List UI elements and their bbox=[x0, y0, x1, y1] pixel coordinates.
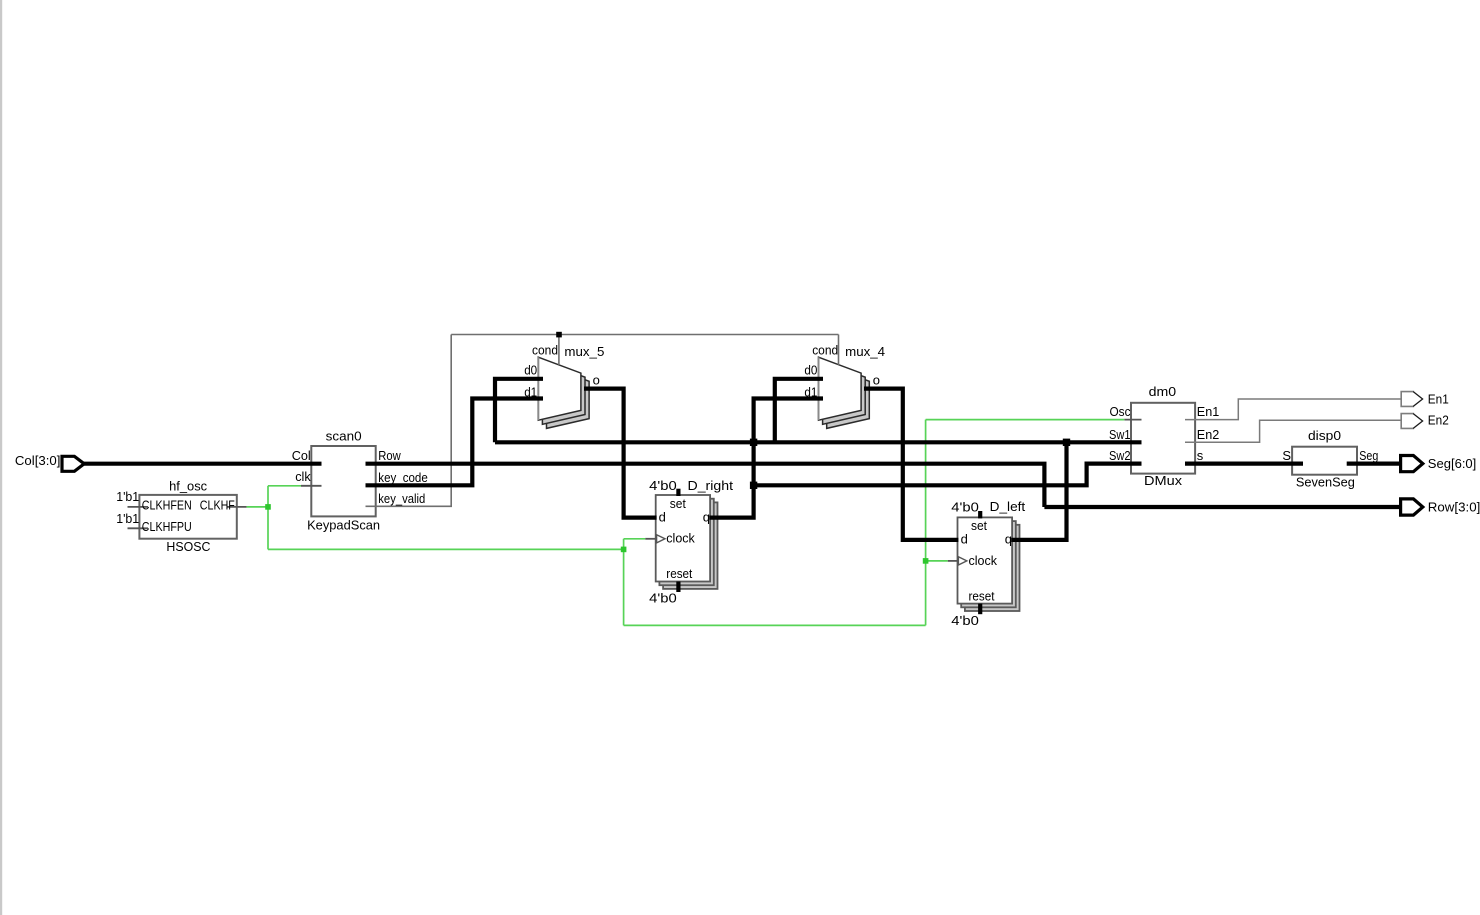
svg-text:DMux: DMux bbox=[1144, 473, 1183, 488]
wire mux_4.d0 riser bbox=[775, 379, 823, 443]
svg-text:d1: d1 bbox=[524, 385, 537, 400]
junction D_right.q riser / branch to Sw2 bbox=[750, 482, 757, 489]
wire clock net (green): to D_left.clock bbox=[926, 560, 948, 562]
input port Col[3:0] bbox=[62, 456, 84, 471]
output port Row[3:0] bbox=[1401, 499, 1423, 515]
wire key_valid net: top horizontal run to mux conds bbox=[451, 334, 838, 336]
clock input triangle D_left bbox=[958, 557, 966, 565]
wire clock net (green): top run to dm0.Osc bbox=[926, 419, 1125, 421]
clock input triangle D_right bbox=[657, 535, 665, 543]
wire D_left.q out and riser to bus y442 bbox=[1011, 442, 1066, 540]
wire clock net (green): tall riser up to dm0 row bbox=[925, 420, 927, 626]
svg-text:reset: reset bbox=[969, 588, 995, 603]
svg-text:s: s bbox=[1197, 448, 1204, 463]
wire D_right.q branch right to dm0.Sw2 bbox=[754, 464, 1142, 486]
output port En2 bbox=[1401, 414, 1422, 429]
svg-text:d0: d0 bbox=[524, 362, 537, 377]
wire Row bus: bottom run to port Row[3:0] bbox=[1044, 505, 1401, 509]
svg-text:Seg[6:0]: Seg[6:0] bbox=[1428, 456, 1477, 471]
junction on cond net at mux_5 bbox=[556, 332, 562, 338]
pin stub D_left.clock bbox=[948, 560, 959, 562]
pin stub dm0.Osc bbox=[1124, 419, 1141, 421]
wire D_right.q feedback: down-leg to mux_5.d0 bbox=[495, 379, 543, 443]
wire D_left reset stub (4'b0) bbox=[978, 604, 982, 615]
svg-text:d: d bbox=[659, 509, 666, 524]
wire dm0.s to disp0.S bbox=[1185, 462, 1303, 466]
svg-text:HSOSC: HSOSC bbox=[166, 539, 210, 554]
svg-text:set: set bbox=[670, 496, 686, 511]
svg-text:En2: En2 bbox=[1428, 413, 1449, 428]
svg-text:dm0: dm0 bbox=[1149, 384, 1177, 399]
wire Row bus: scan0.Row long run right bbox=[366, 464, 1045, 507]
output port En1 bbox=[1401, 392, 1422, 407]
junction clock net at D_right (green) bbox=[621, 547, 627, 553]
svg-text:scan0: scan0 bbox=[326, 428, 362, 443]
wire bus run y442: mux_5.d0 corner to dm0.Sw1 bbox=[495, 440, 1142, 444]
svg-text:cond: cond bbox=[812, 343, 838, 358]
block dm0 (DMux) bbox=[1131, 403, 1195, 474]
svg-text:En1: En1 bbox=[1428, 391, 1449, 406]
svg-text:En1: En1 bbox=[1197, 404, 1220, 419]
svg-text:d: d bbox=[961, 532, 968, 547]
svg-text:D_right: D_right bbox=[688, 478, 734, 493]
svg-text:En2: En2 bbox=[1197, 427, 1220, 442]
junction bus y442 / D_left.q riser bbox=[1063, 439, 1070, 446]
svg-text:S: S bbox=[1282, 448, 1291, 463]
svg-text:q: q bbox=[1005, 532, 1012, 547]
svg-text:key_code: key_code bbox=[378, 470, 428, 485]
wire cond stub of mux_4 bbox=[838, 335, 840, 365]
wire En1 net: dm0.En1 to port En1 bbox=[1185, 399, 1401, 420]
mux mux_5 (4-bit mux stack) bbox=[538, 357, 589, 428]
pin stub hf_osc.CLKHFEN with 1'b1 bbox=[128, 506, 149, 508]
svg-text:CLKHFEN: CLKHFEN bbox=[142, 497, 192, 512]
wire D_right reset stub (4'b0) bbox=[676, 582, 680, 593]
wire key_code bus: scan0.key_code up to mux_5.d1 bbox=[366, 399, 544, 486]
wire clock net (green): riser at D_right bbox=[623, 539, 625, 626]
svg-text:o: o bbox=[593, 372, 600, 387]
wire Col bus: port to scan0.Col bbox=[83, 462, 322, 466]
svg-text:q: q bbox=[703, 509, 710, 524]
svg-text:CLKHFPU: CLKHFPU bbox=[142, 519, 192, 534]
svg-text:reset: reset bbox=[666, 566, 692, 581]
svg-text:Row[3:0]: Row[3:0] bbox=[1428, 499, 1480, 514]
svg-text:D_left: D_left bbox=[990, 499, 1026, 514]
svg-text:Osc: Osc bbox=[1110, 404, 1131, 419]
svg-text:Sw1: Sw1 bbox=[1109, 427, 1131, 442]
svg-text:Col[3:0]: Col[3:0] bbox=[15, 453, 61, 468]
block scan0 (KeypadScan) bbox=[311, 446, 375, 516]
svg-text:o: o bbox=[873, 372, 880, 387]
pin stub D_right.clock bbox=[645, 538, 656, 540]
block hf_osc (HSOSC) bbox=[139, 495, 236, 539]
svg-text:clock: clock bbox=[969, 553, 998, 568]
wire clock net (green): to scan0.clk bbox=[268, 485, 301, 487]
svg-text:Row: Row bbox=[378, 448, 401, 463]
wire clock net (green): lower run toward D_left bbox=[624, 624, 926, 626]
wire En2 net: dm0.En2 to port En2 bbox=[1185, 420, 1401, 442]
output port Seg[6:0] bbox=[1401, 456, 1423, 472]
junction clock net at hf_osc (green) bbox=[265, 504, 271, 510]
junction clock net at D_left (green) bbox=[923, 558, 929, 564]
svg-text:4'b0: 4'b0 bbox=[649, 478, 677, 493]
svg-text:cond: cond bbox=[532, 343, 558, 358]
left window edge bbox=[0, 0, 2, 915]
svg-text:1'b1: 1'b1 bbox=[116, 489, 139, 504]
register D_left (4-bit DFF stack) bbox=[958, 517, 1020, 611]
svg-text:set: set bbox=[971, 518, 987, 533]
svg-text:KeypadScan: KeypadScan bbox=[307, 518, 380, 533]
svg-text:clock: clock bbox=[666, 531, 695, 546]
pin stub hf_osc.CLKHF output bbox=[227, 506, 247, 508]
register D_right (4-bit DFF stack) bbox=[656, 495, 718, 589]
wire disp0.Seg to port Seg[6:0] bbox=[1347, 462, 1402, 466]
svg-text:mux_5: mux_5 bbox=[564, 344, 604, 359]
wire key_valid net: scan0.key_valid right then up bbox=[366, 335, 452, 507]
svg-text:SevenSeg: SevenSeg bbox=[1296, 475, 1355, 490]
wire D_right set stub (4'b0) bbox=[676, 489, 680, 496]
block disp0 (SevenSeg) bbox=[1292, 447, 1357, 475]
junction bus y442 / D_right.q riser bbox=[750, 439, 757, 446]
svg-text:mux_4: mux_4 bbox=[845, 344, 885, 359]
svg-text:Sw2: Sw2 bbox=[1109, 448, 1131, 463]
wire clock net (green): riser at hf_osc junction bbox=[267, 486, 269, 550]
wire clock net (green): long bottom run to D_right bbox=[268, 548, 624, 550]
pin stub hf_osc.CLKHFPU with 1'b1 bbox=[128, 527, 149, 529]
svg-text:CLKHF: CLKHF bbox=[200, 497, 235, 512]
svg-text:hf_osc: hf_osc bbox=[169, 479, 207, 494]
svg-text:disp0: disp0 bbox=[1308, 428, 1341, 443]
svg-text:4'b0: 4'b0 bbox=[951, 500, 979, 515]
svg-text:1'b1: 1'b1 bbox=[116, 511, 139, 526]
svg-text:Col: Col bbox=[292, 448, 311, 463]
wire D_right.q out and riser to mux_4.d1 bbox=[709, 399, 823, 518]
wire mux_5 output to D_right.d bbox=[584, 389, 657, 518]
svg-text:d0: d0 bbox=[804, 362, 817, 377]
wire cond stub of mux_5 bbox=[558, 335, 560, 365]
wire clock net (green): to D_right.clock bbox=[624, 538, 646, 540]
svg-text:4'b0: 4'b0 bbox=[649, 590, 677, 605]
pin stub scan0.clk bbox=[301, 485, 322, 487]
mux mux_4 (4-bit mux stack) bbox=[819, 357, 870, 428]
svg-text:d1: d1 bbox=[804, 385, 817, 400]
svg-text:4'b0: 4'b0 bbox=[951, 613, 979, 628]
svg-text:Seg: Seg bbox=[1359, 448, 1378, 463]
svg-text:clk: clk bbox=[295, 469, 311, 484]
wire clock net (green): hf_osc.CLKHF to junction bbox=[247, 506, 268, 508]
wire D_left set stub (4'b0) bbox=[978, 511, 982, 518]
wire mux_4 output to D_left.d bbox=[864, 389, 958, 540]
svg-text:key_valid: key_valid bbox=[378, 491, 425, 506]
